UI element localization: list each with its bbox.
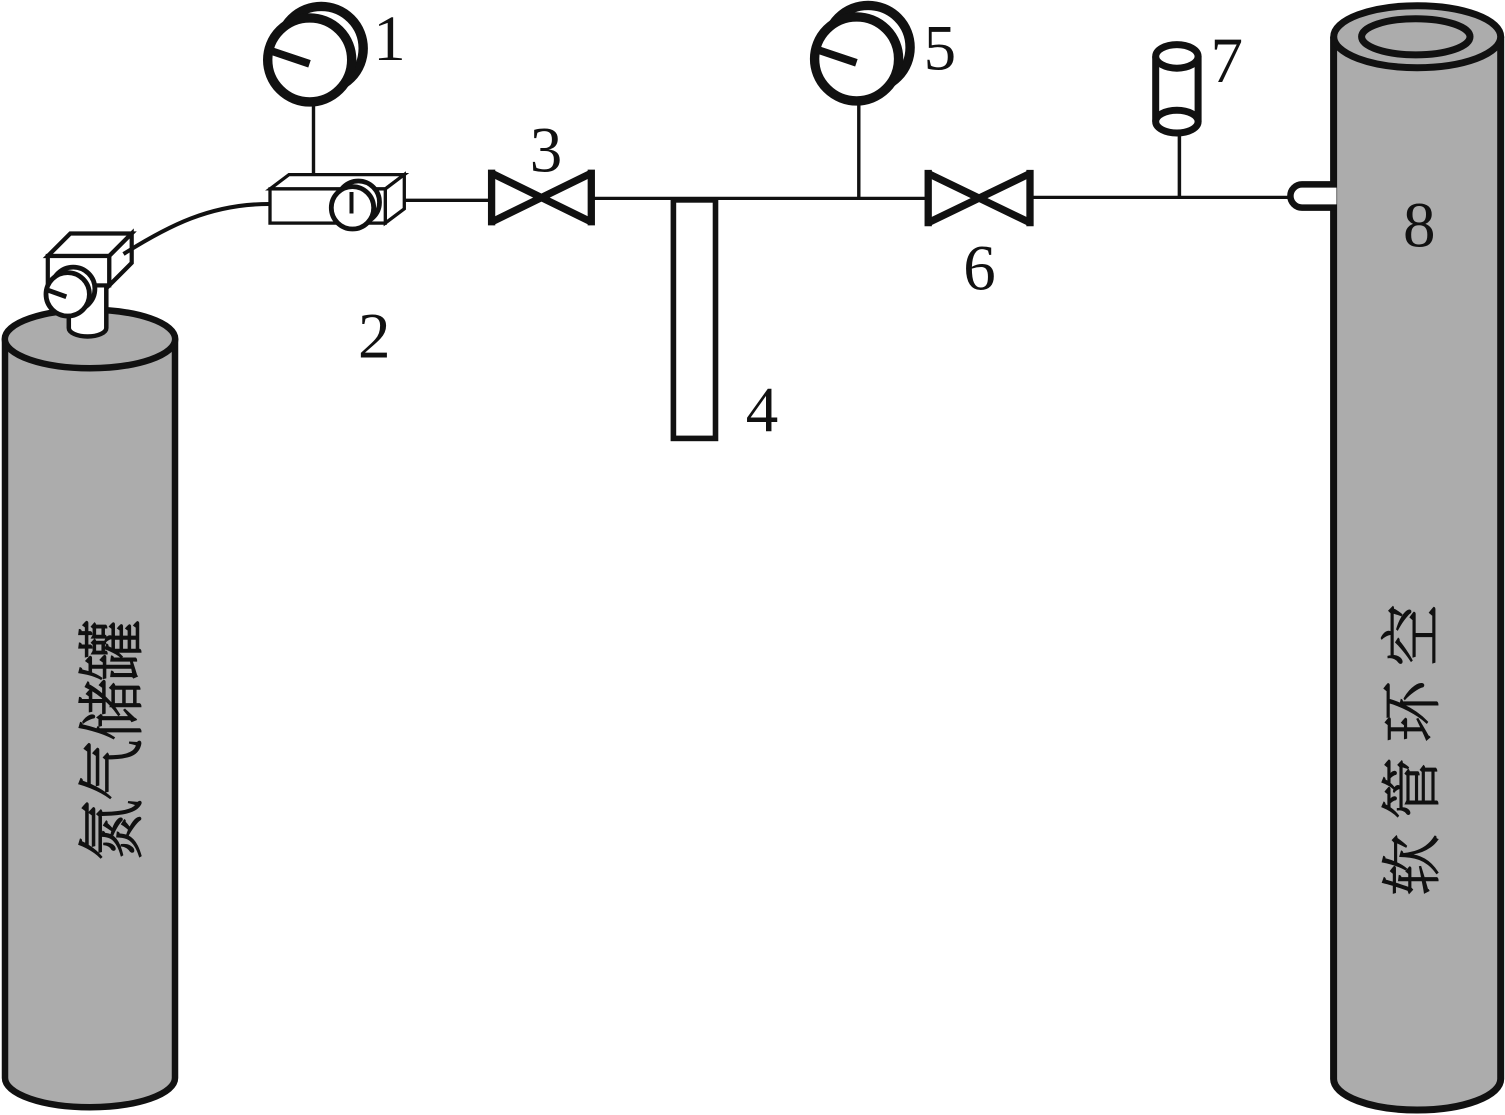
tank knob needle <box>47 290 67 297</box>
buffer tube 4 <box>673 200 715 439</box>
hose from tank valve to regulator <box>124 204 270 254</box>
pressure gauge 1 needle <box>266 49 310 64</box>
regulator knob circle <box>331 187 373 229</box>
pressure gauge 1 dial <box>268 18 352 102</box>
inlet port connector capsule <box>1290 184 1336 207</box>
svg-text:2: 2 <box>358 301 391 373</box>
svg-text:4: 4 <box>746 375 779 447</box>
pipe from valve 6 to port 8 <box>1030 196 1310 199</box>
tank valve box front face <box>48 256 109 285</box>
tank neck cylinder <box>69 278 107 336</box>
regulator box 2 right face <box>385 175 404 224</box>
valve 6 right bar <box>1026 170 1033 226</box>
pressure gauge 5 needle <box>812 48 856 63</box>
valve 6 cross lines <box>928 174 1030 223</box>
regulator knob needle <box>350 192 354 214</box>
svg-text:5: 5 <box>924 12 957 84</box>
sensor 7 top ellipse <box>1156 45 1198 69</box>
gauge 1 stem wire <box>312 104 315 175</box>
svg-text:7: 7 <box>1210 25 1243 97</box>
regulator knob shadow circle <box>337 181 379 223</box>
pipe from regulator 2 to valve 3 <box>404 199 490 202</box>
svg-text:3: 3 <box>530 114 563 186</box>
sensor 7 bottom ellipse <box>1156 110 1198 133</box>
tank knob shadow circle <box>51 267 94 310</box>
pipe from valve 3 to valve 6 <box>591 197 929 200</box>
valve 6 left bar <box>925 170 932 226</box>
annulus cylinder 8 top inner ellipse <box>1362 19 1470 55</box>
annulus cylinder 8 body <box>1334 37 1501 1110</box>
sensor 7 side walls <box>1156 56 1198 121</box>
svg-text:1: 1 <box>373 3 406 75</box>
sensor 7 stem wire <box>1178 130 1182 198</box>
tank knob circle <box>46 273 89 316</box>
valve 3 left bar <box>488 170 495 226</box>
pressure gauge 1 shadow circle <box>279 6 363 90</box>
sensor 7 body fill <box>1156 56 1198 133</box>
regulator box 2 front face <box>270 189 385 223</box>
svg-text:8: 8 <box>1403 189 1436 261</box>
tank valve box right face <box>109 234 132 286</box>
annulus cylinder 8 top outer ellipse <box>1334 6 1501 68</box>
svg-text:6: 6 <box>963 233 996 305</box>
tank label text 氮气储罐 (rotated) <box>79 622 141 858</box>
tank top ellipse <box>5 310 175 368</box>
pressure gauge 5 shadow circle <box>826 5 910 89</box>
valve 3 right bar <box>588 170 595 226</box>
tank valve box top face <box>48 234 132 257</box>
regulator box 2 top face <box>270 175 404 189</box>
annulus label text 软管环空 (rotated) <box>1381 607 1437 893</box>
pressure gauge 5 dial <box>815 17 899 101</box>
gauge 5 stem wire <box>857 103 860 198</box>
gas cylinder tank body <box>5 339 175 1107</box>
valve 3 cross lines <box>492 173 592 222</box>
